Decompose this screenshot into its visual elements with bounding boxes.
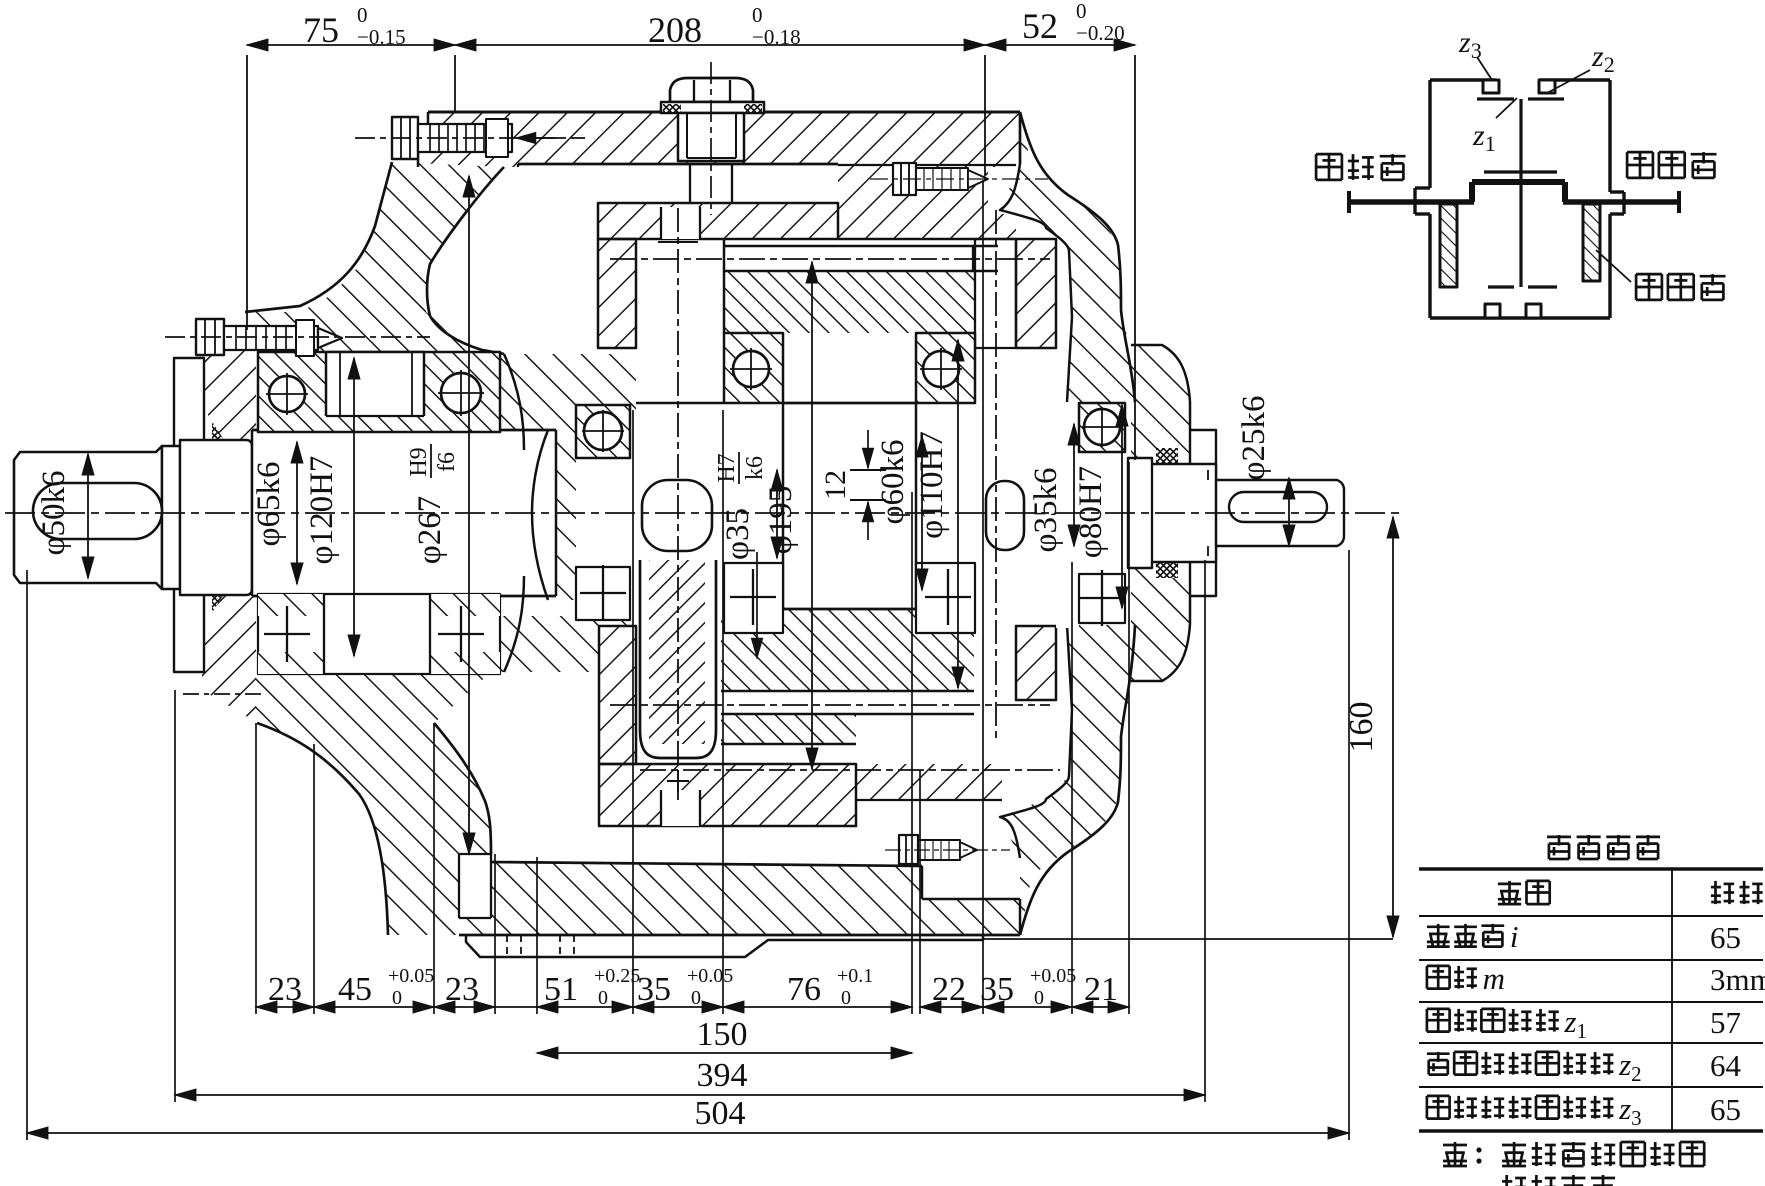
svg-text:H9: H9 [406, 447, 432, 476]
svg-text:75: 75 [303, 10, 339, 50]
svg-text:z3: z3 [1618, 1091, 1642, 1130]
svg-text:H7: H7 [714, 453, 740, 482]
svg-text:504: 504 [695, 1095, 746, 1132]
svg-text:+0.05: +0.05 [687, 965, 733, 987]
svg-text:+0.05: +0.05 [1030, 965, 1076, 987]
svg-text:0: 0 [691, 987, 701, 1009]
svg-text:23: 23 [268, 971, 302, 1008]
svg-text:51: 51 [544, 971, 578, 1008]
svg-text:f6: f6 [434, 452, 460, 472]
svg-text:z1: z1 [1472, 119, 1496, 156]
svg-text:64: 64 [1710, 1048, 1742, 1083]
svg-text:φ35k6: φ35k6 [1028, 467, 1064, 552]
svg-text:φ80H7: φ80H7 [1073, 466, 1109, 558]
svg-text:0: 0 [841, 987, 851, 1009]
svg-text:21: 21 [1084, 971, 1118, 1008]
svg-text:φ120H7: φ120H7 [304, 456, 340, 565]
svg-text:0: 0 [357, 3, 368, 27]
svg-text:m: m [1483, 961, 1505, 996]
svg-text:z1: z1 [1563, 1004, 1587, 1043]
svg-text:k6: k6 [742, 456, 768, 480]
svg-text:150: 150 [697, 1016, 748, 1053]
svg-text:35: 35 [980, 971, 1014, 1008]
svg-text:−0.15: −0.15 [357, 25, 406, 49]
svg-text:0: 0 [1076, 0, 1087, 23]
svg-text:+0.1: +0.1 [837, 965, 873, 987]
svg-text:φ50k6: φ50k6 [36, 470, 72, 555]
svg-text:−0.18: −0.18 [752, 25, 801, 49]
svg-text:12: 12 [819, 470, 852, 500]
svg-text:z2: z2 [1618, 1047, 1642, 1086]
svg-text:φ60k6: φ60k6 [875, 439, 911, 524]
svg-text:57: 57 [1710, 1005, 1741, 1040]
svg-text:−0.20: −0.20 [1076, 21, 1125, 45]
svg-text:z3: z3 [1458, 26, 1482, 63]
svg-text:52: 52 [1022, 6, 1058, 46]
svg-text:φ195: φ195 [763, 486, 799, 555]
svg-text:0: 0 [1034, 987, 1044, 1009]
svg-text:φ267: φ267 [412, 496, 448, 565]
svg-text:φ65k6: φ65k6 [251, 461, 287, 546]
svg-text:45: 45 [338, 971, 372, 1008]
svg-text:0: 0 [752, 3, 763, 27]
svg-text:φ110H7: φ110H7 [914, 431, 950, 539]
svg-text:76: 76 [787, 971, 821, 1008]
svg-text:160: 160 [1343, 702, 1380, 753]
svg-text:0: 0 [392, 987, 402, 1009]
svg-text:+0.25: +0.25 [594, 965, 640, 987]
svg-text:208: 208 [648, 10, 702, 50]
svg-text:65: 65 [1710, 1092, 1741, 1127]
svg-text:i: i [1510, 919, 1519, 954]
svg-text:φ35: φ35 [720, 508, 756, 560]
svg-text:φ25k6: φ25k6 [1236, 395, 1272, 480]
svg-text:23: 23 [445, 971, 479, 1008]
svg-text:394: 394 [697, 1057, 748, 1094]
svg-text:65: 65 [1710, 920, 1741, 955]
svg-text:22: 22 [932, 971, 966, 1008]
svg-text:3mm: 3mm [1710, 962, 1765, 997]
svg-text:z2: z2 [1591, 40, 1615, 77]
svg-text:+0.05: +0.05 [388, 965, 434, 987]
svg-text:35: 35 [637, 971, 671, 1008]
svg-text:0: 0 [598, 987, 608, 1009]
